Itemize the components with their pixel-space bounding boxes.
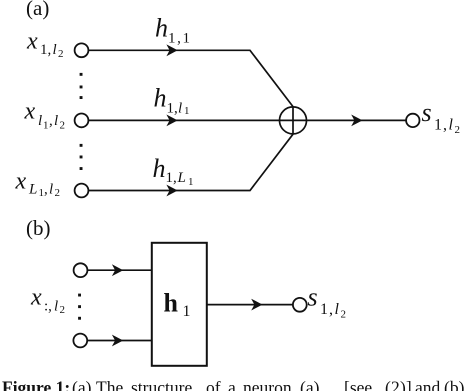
svg-text:l: l	[54, 299, 58, 315]
svg-text:a: a	[228, 378, 236, 391]
svg-text:1: 1	[183, 303, 191, 320]
svg-text:2: 2	[58, 48, 64, 60]
svg-text:s: s	[308, 282, 318, 311]
svg-text:1,: 1,	[167, 101, 178, 117]
svg-text:h: h	[164, 289, 179, 318]
svg-text:1,: 1,	[320, 301, 334, 318]
svg-text:s: s	[422, 98, 432, 127]
svg-text:1: 1	[184, 105, 190, 117]
svg-text:L: L	[28, 181, 37, 197]
svg-text:1,: 1,	[166, 170, 177, 186]
svg-text:The: The	[96, 378, 123, 391]
svg-text:2: 2	[60, 119, 66, 131]
svg-text:and: and	[415, 378, 441, 391]
svg-text:[see: [see	[344, 378, 372, 391]
svg-text:l: l	[449, 117, 454, 134]
svg-text:Figure 1:: Figure 1:	[2, 378, 70, 391]
svg-text:(a): (a)	[26, 0, 49, 20]
svg-text:l: l	[53, 42, 57, 58]
svg-text:2: 2	[60, 304, 66, 316]
svg-text:(b): (b)	[26, 216, 51, 240]
svg-text:1,: 1,	[40, 42, 51, 58]
svg-text:of: of	[206, 378, 221, 391]
svg-text:1: 1	[188, 176, 194, 188]
svg-text:h: h	[154, 84, 167, 113]
svg-text:h: h	[153, 154, 166, 183]
svg-text:1,1: 1,1	[168, 30, 192, 46]
svg-text:)]: )]	[400, 378, 412, 391]
svg-text:l: l	[38, 113, 42, 129]
svg-text:neuron: neuron	[243, 378, 292, 391]
svg-text:structure: structure	[131, 378, 192, 391]
svg-text:2: 2	[341, 308, 347, 320]
svg-text:(b): (b)	[444, 378, 465, 391]
svg-text:x: x	[26, 28, 38, 54]
svg-text:,: ,	[44, 181, 48, 197]
svg-text:1,: 1,	[434, 117, 448, 134]
svg-text:l: l	[49, 181, 53, 197]
svg-text:1: 1	[43, 119, 49, 131]
svg-text:l: l	[178, 101, 182, 117]
svg-text:2: 2	[455, 124, 461, 136]
svg-text::,: :,	[44, 299, 52, 315]
svg-text:(a): (a)	[300, 378, 320, 391]
svg-text:,: ,	[49, 113, 53, 129]
svg-text:L: L	[177, 170, 186, 186]
svg-text:(a): (a)	[72, 378, 92, 391]
svg-text:l: l	[335, 301, 340, 318]
svg-text:h: h	[155, 13, 168, 42]
svg-text:2: 2	[55, 187, 61, 199]
svg-text:x: x	[30, 285, 42, 311]
svg-text:x: x	[24, 98, 36, 124]
svg-text:2: 2	[391, 378, 400, 391]
svg-text:l: l	[54, 113, 58, 129]
svg-text:x: x	[15, 169, 27, 195]
